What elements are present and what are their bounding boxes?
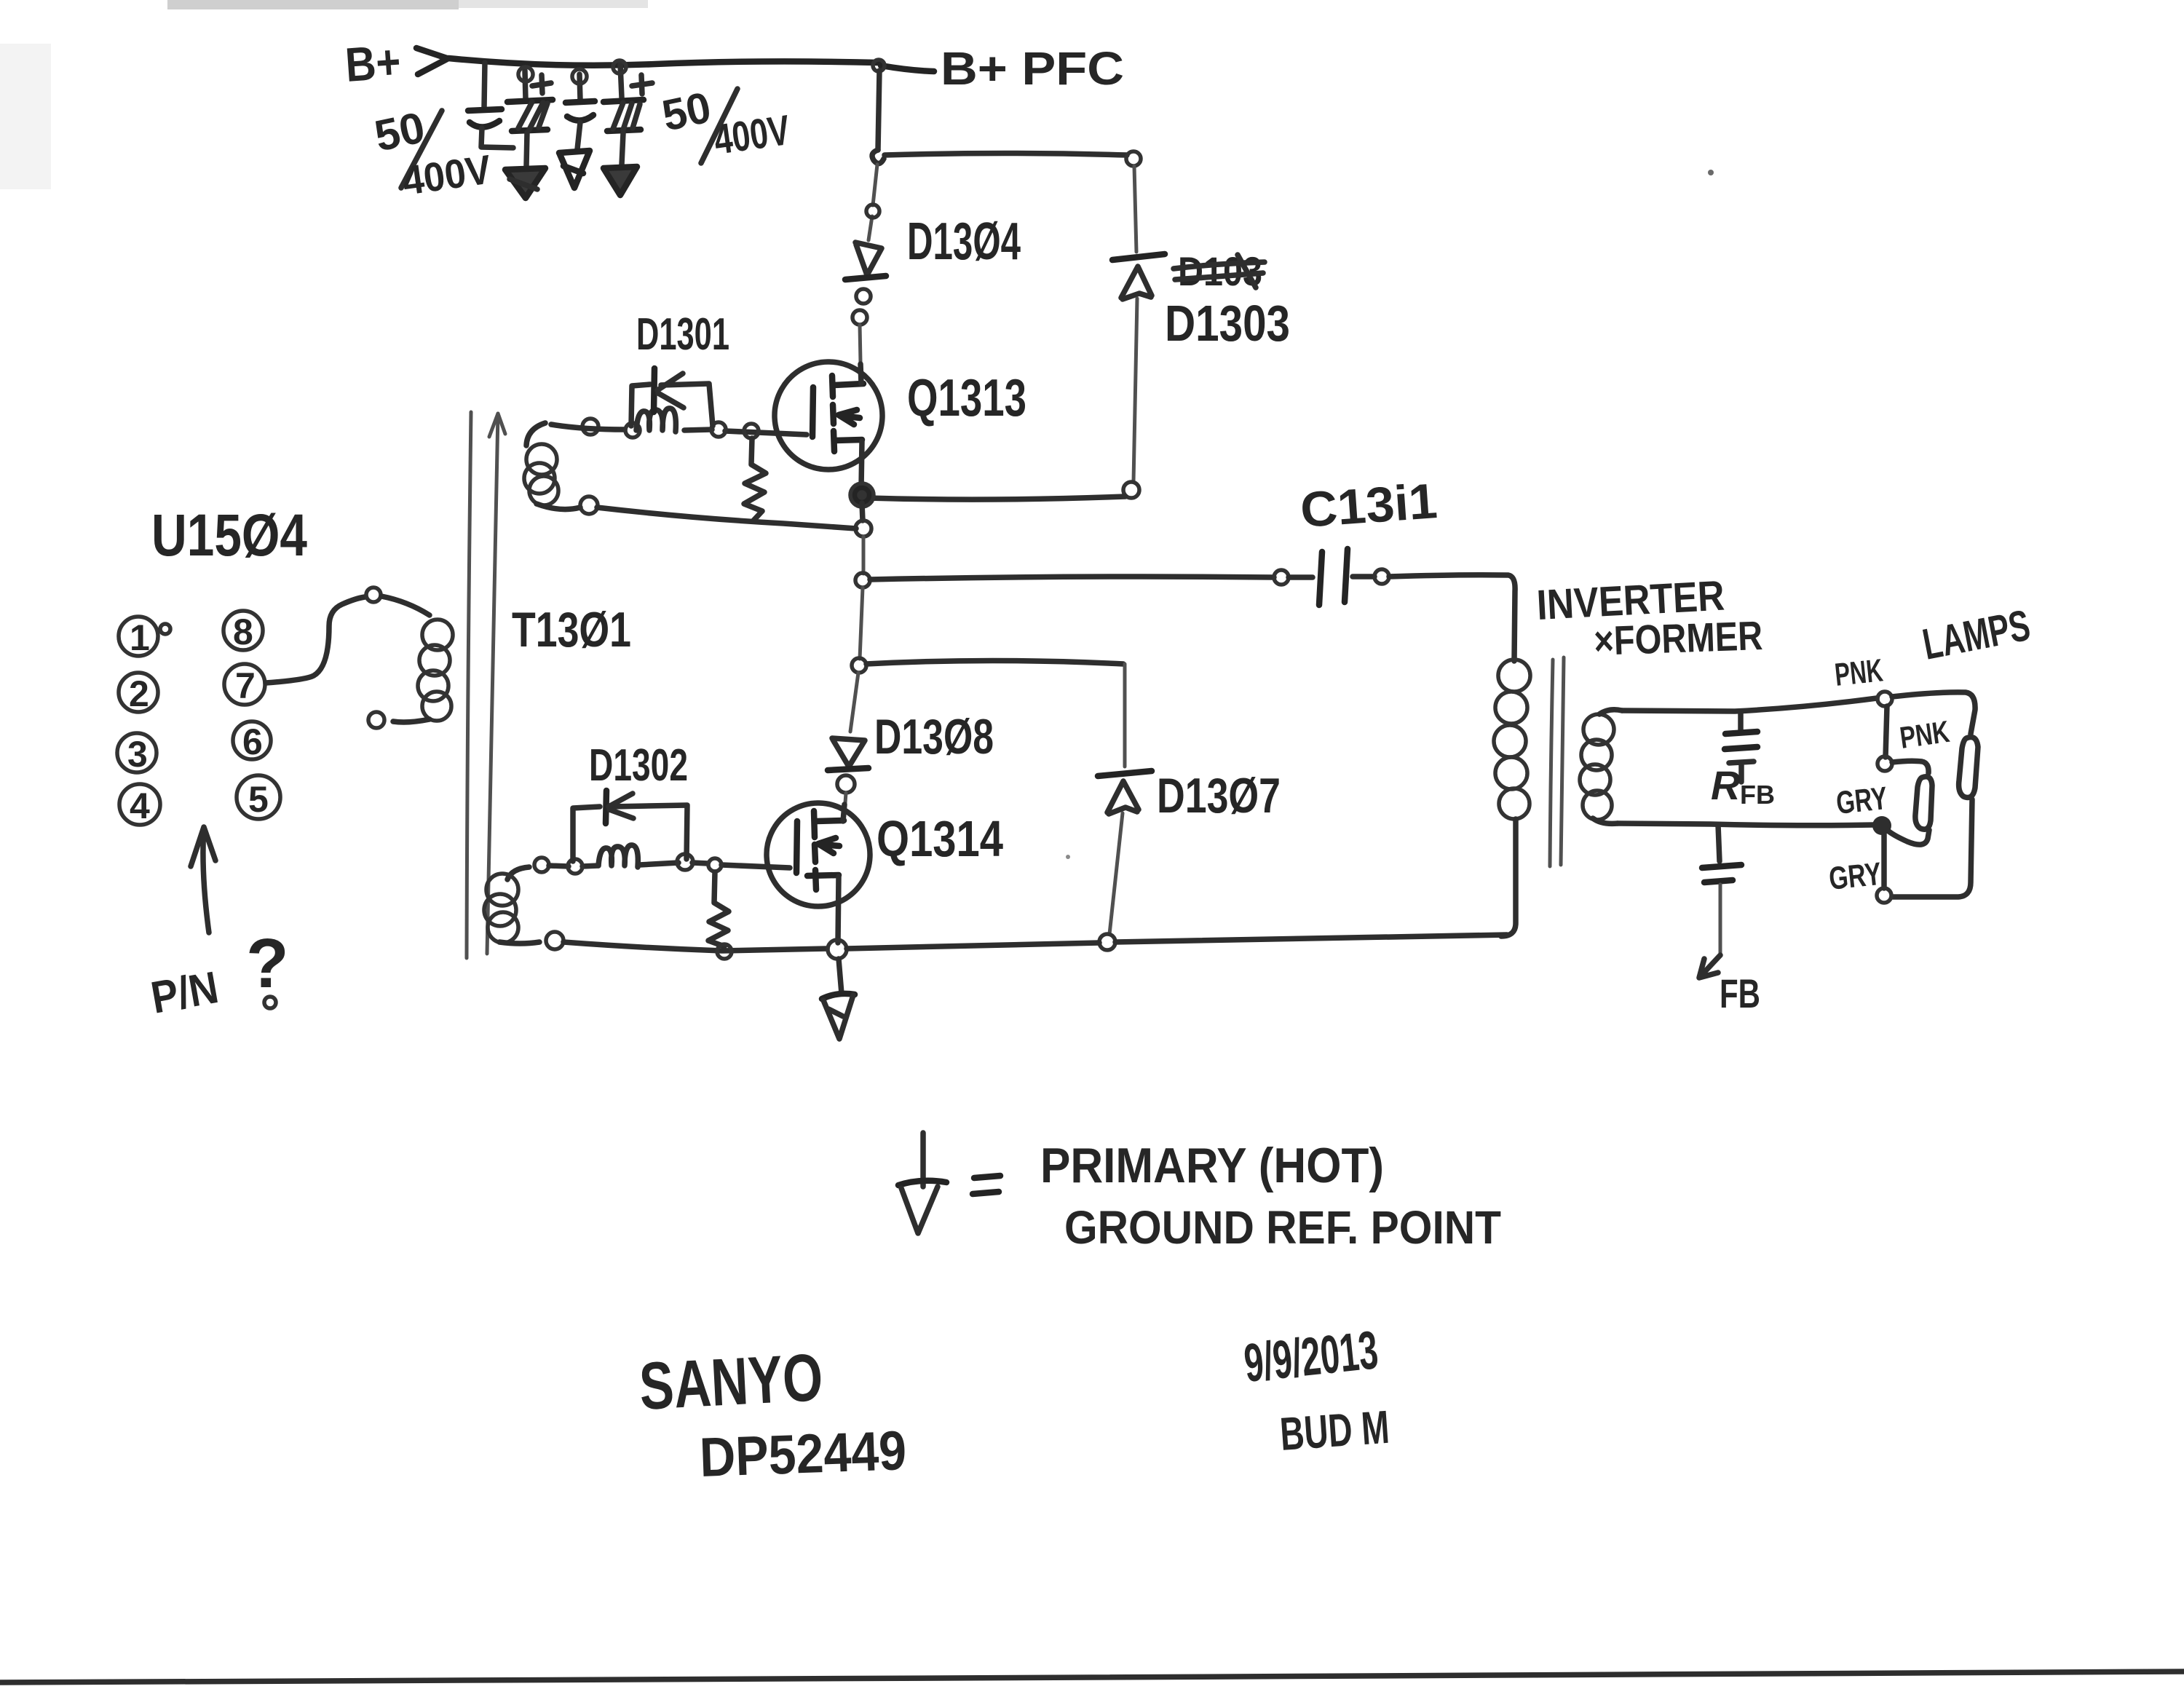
plus sign for D-b: [632, 75, 652, 94]
svg-text:Q1314: Q1314: [877, 810, 1003, 867]
node bottom of D1303: [1123, 482, 1139, 498]
resistor to source rail 2: [708, 872, 729, 946]
node PNK2 terminal: [1878, 756, 1892, 771]
pin 2: [119, 673, 158, 714]
svg-text:D1302: D1302: [589, 740, 688, 791]
wire trunk upper: [878, 71, 879, 150]
wire lamp2 loop: [1887, 761, 1929, 844]
node terminals on gate line: [625, 423, 640, 438]
node junction Q1313 source (filled): [850, 483, 874, 507]
svg-text:PRIMARY (HOT): PRIMARY (HOT): [1040, 1138, 1384, 1193]
node junction T1301 lower wire: [855, 521, 871, 537]
snubber loop D1301: [631, 384, 713, 426]
capacitor C-b: [566, 69, 595, 149]
pin 6: [233, 721, 271, 762]
svg-text:2: 2: [129, 673, 149, 714]
question mark: [246, 925, 289, 1008]
wire to winding: [381, 596, 430, 615]
pin 7: [224, 664, 265, 706]
ground (primary hot ref): [822, 994, 855, 1039]
wire trunk segment: [862, 537, 866, 574]
ground for C-b (open): [559, 151, 590, 188]
scan artifact top streaks: [167, 0, 459, 9]
node junction to D1303 branch: [872, 150, 884, 164]
value label 50/400V left: [371, 103, 494, 204]
capacitor R FB: [1725, 713, 1757, 782]
plus sign for D-a: [532, 75, 551, 93]
zener/transil D-a: [507, 67, 553, 166]
capacitor C-a 50/400V: [468, 63, 513, 148]
wire bottom rail right of Q1314: [847, 935, 1507, 949]
node winding top terminal: [582, 419, 598, 435]
diode D1308: [828, 738, 869, 803]
wire pin7 to primary winding: [266, 597, 365, 683]
wire top branch to D1303: [885, 154, 1127, 156]
node junction D1307 wire: [852, 658, 866, 673]
inductor m on gate2 line: [598, 845, 638, 867]
lamp 2: [1915, 777, 1932, 829]
wire trunk segment: [860, 588, 863, 659]
wire trunk down to D1308: [850, 673, 858, 732]
wire gate line Q1314: [549, 863, 790, 868]
svg-text:B+ PFC: B+ PFC: [941, 42, 1124, 95]
label D103 crossed out: [1174, 248, 1265, 294]
svg-text:400V: 400V: [400, 146, 494, 204]
node top of D1303: [1126, 151, 1141, 166]
wire down to D1303: [1134, 166, 1136, 252]
capacitor FB: [1702, 865, 1741, 955]
svg-text:D13Ø4: D13Ø4: [907, 213, 1021, 271]
lamp 1: [1959, 737, 1978, 798]
wire C1311 branch: [870, 577, 1274, 580]
node dot above D1304: [866, 205, 879, 218]
capacitor C1311: [1289, 549, 1374, 605]
node primary winding top terminal: [366, 588, 381, 602]
svg-text:SANYO: SANYO: [638, 1340, 825, 1424]
pin 5: [237, 775, 280, 820]
ground for D-a (filled): [505, 168, 545, 198]
wire down to FB cap: [1718, 825, 1720, 861]
wire PNK to PNK2: [1886, 706, 1887, 757]
equals sign: [973, 1176, 1000, 1194]
node C1311 right terminal: [1374, 569, 1389, 584]
winding inverter secondary: [1580, 710, 1622, 824]
resistor to source rail: [744, 438, 766, 521]
svg-text:Q1313: Q1313: [907, 369, 1026, 427]
electrolytic D-b 50/400V: [604, 60, 644, 165]
svg-text:50: 50: [658, 82, 715, 140]
svg-text:PNK: PNK: [1833, 652, 1885, 693]
svg-text:6: 6: [242, 721, 263, 762]
svg-text:4: 4: [130, 786, 150, 826]
svg-text:8: 8: [233, 612, 253, 652]
node GRY junction (filled): [1872, 816, 1891, 835]
diode D1302: [606, 791, 633, 823]
wire to primary ground: [839, 959, 842, 994]
wire down to D1307: [1123, 664, 1127, 767]
svg-text:PNK: PNK: [1898, 714, 1952, 755]
winding inverter primary: [1494, 660, 1530, 819]
transistor Q1313 MOSFET: [775, 362, 882, 488]
svg-text:LAMPS: LAMPS: [1919, 601, 2034, 669]
winding T1301 primary: [393, 620, 453, 722]
svg-text:7: 7: [235, 665, 256, 706]
svg-text:D13Ø7: D13Ø7: [1157, 768, 1281, 823]
svg-text:FB: FB: [1740, 780, 1775, 810]
wire gate line Q1313: [551, 424, 807, 435]
svg-text:BUD M: BUD M: [1278, 1401, 1391, 1460]
FB arrow: [1699, 955, 1720, 978]
node junction resistor2 bottom: [717, 944, 732, 959]
svg-text:DP52449: DP52449: [699, 1420, 908, 1489]
diode D1304: [845, 242, 886, 325]
inductor m on gate line: [636, 408, 676, 432]
ground for D-b (filled): [604, 167, 637, 195]
node primary winding bottom terminal: [368, 712, 384, 728]
wire trunk to D1304: [869, 165, 877, 240]
diode D1307 (pointing up): [1098, 771, 1152, 934]
svg-text:GRY: GRY: [1835, 780, 1889, 821]
svg-text:?: ?: [246, 925, 289, 1002]
snubber loop D1302: [573, 805, 687, 861]
svg-text:FB: FB: [1720, 970, 1760, 1016]
svg-text:9/9/2013: 9/9/2013: [1241, 1319, 1381, 1393]
svg-text:3: 3: [127, 734, 148, 775]
pin 4: [119, 784, 160, 826]
wire stub to B+ PFC label: [881, 66, 934, 71]
diode D1303 (pointing up): [1112, 254, 1165, 482]
wire trunk into Q1313 drain: [860, 325, 860, 363]
svg-text:T13Ø1: T13Ø1: [512, 602, 631, 657]
wire to inverter primary: [1389, 575, 1515, 661]
wire bottom branch back to trunk: [868, 497, 1125, 499]
inverter transformer core: [1550, 657, 1564, 866]
node junction B+/trunk: [873, 60, 885, 71]
wire inverter primary return: [1501, 819, 1516, 936]
node junction C1311 wire: [855, 573, 870, 588]
node GRY2 terminal: [1877, 888, 1891, 903]
svg-text:B+: B+: [344, 34, 403, 92]
node bottom of D1307: [1099, 934, 1115, 950]
svg-text:D13Ø8: D13Ø8: [874, 709, 994, 764]
winding T1301 lower-right: [484, 867, 539, 944]
scan line at page bottom: [0, 1672, 2184, 1682]
diode D1301: [654, 368, 684, 412]
transformer T1301 core: [467, 412, 505, 958]
node terminals on gate2 line: [568, 859, 582, 874]
wire secondary top to PNK: [1622, 698, 1877, 711]
P/N query arrow: [191, 827, 215, 933]
svg-text:400V: 400V: [711, 106, 793, 164]
wire T1301 lower winding return: [563, 942, 827, 951]
pin 1: [119, 617, 170, 658]
wire GRY to GRY2: [1881, 834, 1887, 888]
wire B+ rail: [448, 58, 878, 66]
node winding2 lower terminal: [546, 932, 563, 949]
transistor Q1314 MOSFET: [767, 803, 870, 943]
wire top branch to D1307: [866, 661, 1123, 665]
winding T1301 upper-right: [524, 423, 580, 510]
node gate2 winding terminal: [534, 858, 549, 872]
svg-text:GROUND REF. POINT: GROUND REF. POINT: [1064, 1201, 1501, 1254]
label INVERTER XFORMER: [1535, 572, 1763, 664]
svg-text:C13i1: C13i1: [1299, 473, 1439, 538]
pin 8: [223, 611, 263, 652]
wire T1301 upper winding return to trunk: [597, 507, 856, 529]
label R FB: [1711, 762, 1775, 810]
svg-text:D1301: D1301: [636, 309, 729, 360]
svg-text:×FORMER: ×FORMER: [1593, 612, 1763, 664]
svg-text:R: R: [1711, 762, 1741, 808]
svg-text:D1303: D1303: [1165, 295, 1290, 352]
node winding lower terminal: [580, 497, 598, 514]
stray pencil dot: [1708, 170, 1714, 175]
wire trunk segment below source: [862, 503, 863, 521]
pin 3: [117, 733, 157, 775]
svg-text:1: 1: [130, 617, 150, 658]
svg-text:GRY: GRY: [1827, 856, 1883, 897]
svg-text:U15Ø4: U15Ø4: [151, 502, 307, 569]
svg-text:5: 5: [248, 779, 269, 820]
wire lamp1 loop: [1892, 692, 1975, 897]
node junction Q1314 source: [828, 940, 847, 959]
node C1311 left terminal: [1274, 570, 1289, 585]
svg-text:P/N: P/N: [147, 962, 222, 1024]
stray pencil dot 2: [1066, 855, 1070, 859]
B+ input arrow: [416, 48, 447, 74]
wire secondary bottom to GRY: [1618, 823, 1874, 826]
node PNK terminal: [1878, 692, 1892, 706]
ground legend symbol: [898, 1133, 946, 1233]
